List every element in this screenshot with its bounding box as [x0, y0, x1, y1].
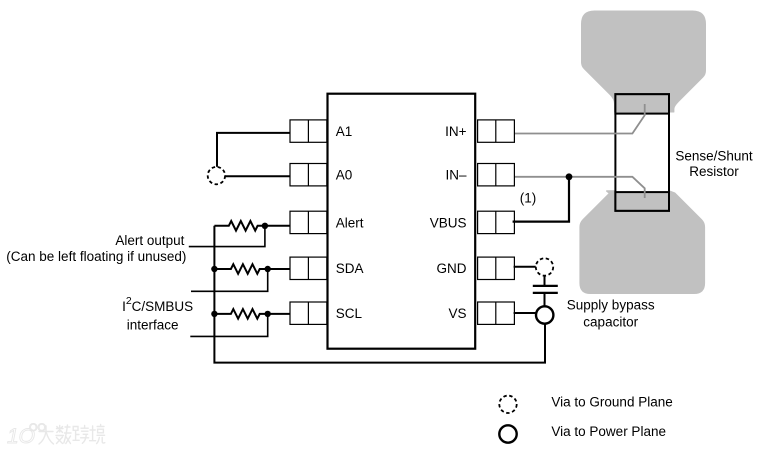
svg-text:Resistor: Resistor — [689, 164, 739, 179]
IN- kelvin trace (gray) — [513, 177, 644, 198]
pin pad A0 — [290, 164, 327, 186]
IC body U1 — [328, 94, 476, 349]
svg-text:GND: GND — [437, 261, 467, 276]
svg-text:capacitor: capacitor — [583, 315, 638, 330]
svg-text:Sense/Shunt: Sense/Shunt — [675, 148, 753, 163]
capacitor C1 (supply bypass) — [533, 286, 558, 293]
wire via to capacitor — [544, 276, 546, 285]
svg-text:IN+: IN+ — [445, 124, 467, 139]
resistor R1 (Alert pull-up) — [214, 221, 290, 231]
svg-text:IN–: IN– — [445, 168, 467, 183]
pin pad A1 — [290, 120, 327, 142]
via to ground plane (A0/A1 address) — [208, 167, 225, 184]
via to power plane (VS) — [536, 306, 553, 323]
shunt top pad — [615, 94, 669, 113]
svg-text:VBUS: VBUS — [430, 215, 467, 230]
SDA label leader wire — [191, 269, 268, 291]
pin pad VBUS — [478, 211, 515, 233]
VBUS wire to IN- node — [513, 177, 569, 222]
svg-text:Via to Ground Plane: Via to Ground Plane — [551, 395, 672, 410]
svg-text:Supply bypass: Supply bypass — [567, 298, 655, 313]
svg-text:SCL: SCL — [336, 306, 363, 321]
VS wire — [514, 312, 537, 314]
pin pad IN+ — [478, 120, 515, 142]
shunt resistor body — [615, 94, 669, 211]
wire capacitor to power via — [544, 293, 546, 307]
junction SDA — [265, 266, 271, 272]
pin pad VS — [478, 302, 515, 324]
junction IN-/VBUS — [566, 173, 573, 180]
svg-text:Alert output: Alert output — [115, 233, 184, 248]
Alert label leader wire — [189, 226, 265, 247]
svg-text:(Can be left floating if unuse: (Can be left floating if unused) — [6, 249, 186, 264]
svg-text:SDA: SDA — [336, 261, 364, 276]
wire A0 — [225, 175, 290, 177]
svg-text:A0: A0 — [336, 168, 353, 183]
junction SCL — [265, 311, 271, 317]
pin pad SDA — [290, 257, 327, 279]
junction SDA bus — [211, 266, 217, 272]
pull-up bus vertical wire — [214, 226, 545, 363]
via to ground plane (GND) — [536, 258, 553, 275]
GND wire — [514, 266, 536, 268]
junction Alert — [262, 223, 268, 229]
top copper plane (gray pour above shunt) — [582, 11, 706, 112]
wire A1 to via — [217, 133, 290, 167]
SCL label leader wire — [190, 314, 267, 337]
IN+ kelvin trace (gray) — [513, 104, 644, 134]
pin pad GND — [478, 257, 515, 279]
resistor R2 (SDA pull-up) — [214, 264, 290, 274]
shunt bottom pad — [615, 192, 669, 211]
svg-text:Via to Power Plane: Via to Power Plane — [551, 424, 666, 439]
pin pad Alert — [290, 211, 327, 233]
watermark characters (faint) — [39, 425, 105, 445]
watermark logo 10-100 — [7, 422, 47, 448]
junction SCL bus — [211, 311, 217, 317]
pin pad IN- — [478, 164, 515, 186]
svg-text:A1: A1 — [336, 124, 353, 139]
bottom copper plane (gray pour below shunt) — [580, 191, 704, 293]
svg-text:Alert: Alert — [336, 215, 364, 230]
pin pad SCL — [290, 302, 327, 324]
svg-text:(1): (1) — [520, 191, 537, 206]
resistor R3 (SCL pull-up) — [214, 309, 290, 319]
svg-text:interface: interface — [127, 318, 179, 333]
svg-text:VS: VS — [448, 306, 466, 321]
legend: via to power plane symbol — [499, 425, 516, 442]
legend: via to ground plane symbol — [499, 396, 516, 413]
